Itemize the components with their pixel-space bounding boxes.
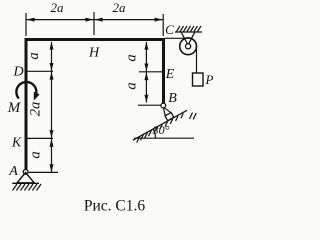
arrow down to A [50, 164, 54, 172]
paper background [0, 0, 219, 219]
arrow down to B level [144, 95, 148, 103]
pulley bracket [181, 33, 194, 46]
svg-text:a: a [124, 54, 140, 61]
arrow up from D tick [50, 72, 54, 80]
frame left member D-A [25, 38, 28, 170]
svg-text:H: H [88, 46, 100, 61]
left dimension line [51, 42, 53, 172]
svg-text:2a: 2a [113, 0, 127, 15]
svg-text:D: D [12, 65, 23, 80]
angle arc 30deg [153, 129, 155, 138]
svg-text:2a: 2a [51, 0, 65, 15]
pin support A circle [23, 170, 28, 175]
pin circle at B [161, 103, 166, 108]
top dimension extension line left [25, 13, 27, 36]
svg-text:P: P [205, 72, 214, 87]
tick at K [28, 137, 54, 139]
moment M arrowhead [34, 92, 40, 101]
roller strut right [164, 107, 171, 112]
ceiling line at pulley [175, 31, 202, 33]
rope over pulley [188, 38, 196, 46]
svg-text:Рис. С1.6: Рис. С1.6 [84, 198, 146, 215]
right dimension line [145, 42, 147, 103]
svg-text:A: A [8, 164, 18, 179]
incline hatching [137, 113, 197, 143]
svg-text:M: M [7, 100, 22, 116]
pulley wheel [180, 38, 197, 55]
moment M arc [16, 82, 36, 99]
ground line at A [12, 182, 39, 184]
tick at E [139, 71, 162, 73]
pin support A triangle [17, 173, 34, 183]
svg-text:C: C [165, 22, 174, 37]
arrow up to bar right [144, 42, 148, 50]
weight P box [193, 73, 204, 86]
ground hatching at A [13, 184, 42, 191]
roller block on incline [165, 113, 174, 121]
svg-text:a: a [26, 52, 42, 59]
arrow up from E tick [144, 72, 148, 80]
svg-text:30°: 30° [152, 123, 170, 137]
arrow left end [27, 18, 35, 22]
arrow right end [155, 18, 163, 22]
tick at B level [138, 104, 161, 106]
frame right member C-B [162, 38, 165, 104]
top dimension extension line right [162, 14, 164, 36]
pulley hub [186, 44, 191, 49]
svg-text:E: E [165, 67, 175, 82]
rope horizontal from C to pulley [165, 37, 188, 39]
arrow into center tick from left [85, 18, 93, 22]
svg-text:K: K [11, 136, 22, 151]
arrow up from K tick [50, 139, 54, 147]
tick at A level [28, 171, 58, 173]
svg-text:B: B [168, 91, 177, 106]
rope down to weight [196, 46, 198, 73]
svg-text:2a: 2a [28, 102, 44, 117]
arrow down into D tick [50, 63, 54, 71]
frame top bar H-C [25, 38, 166, 41]
arrow into center tick from right [95, 18, 103, 22]
arrow down into K tick [50, 130, 54, 138]
incline surface line [133, 110, 187, 140]
arrow up to bar [50, 42, 54, 50]
roller strut left [163, 108, 165, 116]
svg-text:a: a [124, 82, 140, 89]
arrow down into E tick [144, 64, 148, 72]
tick at D [28, 70, 54, 72]
svg-text:a: a [28, 151, 44, 158]
ceiling hatching [177, 26, 202, 32]
top dimension center tick [93, 12, 95, 35]
top dimension line [26, 19, 163, 21]
incline horizontal baseline [134, 137, 194, 139]
